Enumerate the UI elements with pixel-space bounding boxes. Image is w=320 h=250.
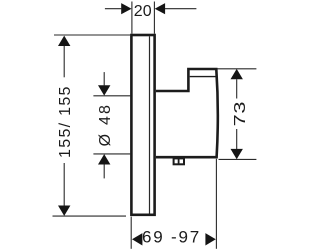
dimension 69-97: left arrow [132,233,142,245]
bottom tab block [174,157,184,164]
dimension 20: extension line left [131,2,133,34]
dimension 155/155: top arrow and line stub [58,36,70,78]
dimension 69-97: left extension line [130,217,132,249]
plate inner face line [149,36,151,213]
dimension 73: value label [232,101,250,127]
handle cap detail line [190,76,216,78]
svg-text:Ø 48: Ø 48 [97,103,114,147]
svg-text:69 -97: 69 -97 [142,227,201,246]
plate side view outline [131,35,154,215]
dimension 69-97: right extension line [215,159,217,249]
dimension diameter 48: top arrow and stub [98,72,110,96]
svg-text:155/ 155: 155/ 155 [57,85,74,158]
dimension 155/155: bottom extension line [53,215,127,217]
dimension diameter 48: value label [97,103,114,147]
dimension 73: bottom arrow and stub [231,129,243,159]
dimension 20: extension line right [153,2,155,34]
svg-text:73: 73 [232,101,250,127]
dimension 155/155: bottom arrow and line stub [58,163,70,216]
dimension diameter 48: bottom arrow and stub [98,154,110,178]
valve body and handle outline [156,69,218,157]
dimension 73: bottom extension line [219,158,257,160]
dimension 69-97: value label [142,227,201,246]
svg-text:20: 20 [134,3,152,20]
dimension 69-97: right arrow [205,233,215,245]
dimension 73: top extension line [218,68,257,70]
dimension 155/155: value label [57,85,74,158]
dimension 20: right leader and arrow [155,3,197,14]
dimension 20: left leader and arrow [105,3,132,14]
dimension 155/155: top extension line [54,34,130,36]
dimension 20: value label [134,3,152,20]
dimension 73: top arrow and stub [231,69,243,99]
dimension diameter 48: bottom extension line [93,153,130,155]
dimension diameter 48: top extension line [93,95,130,97]
